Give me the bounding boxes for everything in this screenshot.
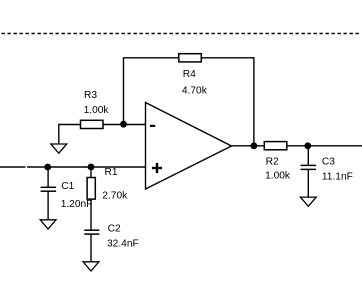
svg-text:1.20nF: 1.20nF: [61, 199, 93, 210]
svg-text:R4: R4: [183, 69, 196, 80]
svg-text:32.4nF: 32.4nF: [107, 238, 139, 249]
svg-text:C2: C2: [108, 224, 121, 235]
svg-text:1.00k: 1.00k: [84, 105, 110, 116]
svg-text:C1: C1: [61, 181, 74, 192]
svg-text:1.00k: 1.00k: [265, 171, 291, 182]
svg-text:C3: C3: [322, 157, 335, 168]
svg-text:R3: R3: [84, 90, 97, 101]
svg-text:R1: R1: [105, 167, 118, 178]
svg-text:R2: R2: [266, 157, 279, 168]
svg-text:11.1nF: 11.1nF: [322, 171, 353, 182]
svg-text:2.70k: 2.70k: [102, 191, 128, 202]
svg-text:4.70k: 4.70k: [182, 86, 208, 97]
